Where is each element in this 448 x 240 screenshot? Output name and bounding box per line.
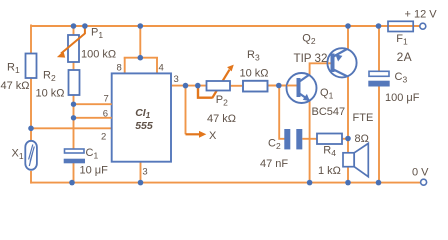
svg-text:R3: R3: [247, 49, 260, 63]
wire P2 to R3: [230, 85, 243, 87]
junction Q1 base C2: [276, 83, 282, 89]
wire 555 supply to rail: [139, 26, 141, 59]
junction rail P1 top: [71, 23, 77, 29]
junction rail 555 ground: [138, 180, 144, 186]
svg-text:47 kΩ: 47 kΩ: [1, 80, 30, 92]
potentiometer P1 wiper arrow: [57, 26, 85, 58]
svg-text:C3: C3: [395, 71, 408, 85]
wire 555 supply bracket pin 8 stub: [124, 58, 126, 74]
capacitor C2 right plate: [296, 129, 302, 149]
svg-text:555: 555: [135, 120, 153, 132]
potentiometer P2 wiper arrow: [212, 65, 234, 98]
wire Q1 base node down to C2: [279, 87, 284, 139]
capacitor C3 bottom plate: [368, 81, 389, 87]
junction rail P1 wiper: [82, 23, 88, 29]
junction rail Q2 emitter: [345, 23, 351, 29]
transistor Q1 internals: [287, 75, 310, 102]
junction 555 bracket: [138, 55, 144, 61]
svg-text:2: 2: [101, 132, 106, 143]
transistor Q2 internals: [328, 49, 347, 77]
wire C2 to R4: [302, 138, 318, 140]
svg-text:47 kΩ: 47 kΩ: [207, 113, 236, 125]
wire speaker to 0V rail: [347, 166, 349, 183]
crystal X1: [25, 141, 37, 170]
wire 555 supply bracket pin 4 stub: [156, 58, 158, 74]
speaker cone: [354, 143, 368, 176]
svg-text:7: 7: [104, 94, 109, 105]
wire R1 to X1: [30, 77, 32, 142]
wire R2 down to C1: [73, 94, 75, 149]
svg-text:X: X: [209, 130, 217, 142]
wire P2 wiper tail: [198, 86, 213, 98]
wire 555 supply bracket horizontal: [124, 57, 158, 59]
svg-text:47 nF: 47 nF: [260, 158, 288, 170]
svg-text:3: 3: [142, 167, 147, 178]
svg-text:BC547: BC547: [312, 106, 346, 118]
capacitor C1 bottom plate: [64, 159, 85, 164]
svg-text:P2: P2: [216, 94, 228, 108]
wire node X vertical drop: [185, 86, 187, 135]
wire C3 bottom to 0V rail: [378, 86, 380, 183]
transistor Q2 body: [327, 48, 356, 77]
wire X1 bottom to 0V rail: [30, 171, 32, 184]
svg-text:10 μF: 10 μF: [80, 165, 109, 177]
svg-text:R2: R2: [43, 70, 56, 84]
wire C1 bottom to 0V rail: [73, 163, 75, 183]
resistor R4: [317, 134, 342, 145]
svg-text:2A: 2A: [397, 50, 412, 64]
wire rail to P1 top: [73, 26, 75, 36]
wire pin 2 horizontal: [31, 127, 112, 129]
capacitor C3 top plate: [369, 71, 389, 76]
wire top +12V rail: [31, 25, 421, 27]
wire R4 to speaker node: [341, 138, 348, 140]
svg-text:P1: P1: [91, 27, 103, 41]
svg-text:FTE: FTE: [353, 112, 374, 124]
speaker body: [343, 153, 354, 167]
wire Q1 emitter down to 0V rail: [309, 100, 311, 183]
wire P1 to R2: [73, 61, 75, 71]
svg-text:100 kΩ: 100 kΩ: [81, 49, 116, 61]
resistor R2: [69, 70, 80, 95]
wire Q2 collector down to speaker: [347, 76, 349, 154]
IC U1 555 body: [112, 73, 171, 161]
junction R2 pin6: [71, 115, 76, 120]
node X output arrow: [186, 131, 207, 138]
wire pin 3 output horizontal: [171, 85, 207, 87]
junction rail C3 bottom: [376, 180, 382, 186]
svg-text:8: 8: [117, 63, 122, 74]
svg-text:TIP 32: TIP 32: [294, 52, 328, 65]
resistor R1: [26, 54, 37, 79]
svg-text:Q2: Q2: [302, 33, 316, 47]
junction R4 speaker: [345, 136, 351, 142]
junction pin3 node X: [183, 83, 189, 89]
wire pin 6 horizontal: [74, 117, 112, 119]
resistor R3: [243, 81, 268, 92]
wire Q1 collector to Q2 base: [310, 63, 331, 75]
wire pin 7 horizontal: [74, 103, 112, 105]
svg-text:10 kΩ: 10 kΩ: [36, 88, 65, 100]
junction rail C3: [376, 23, 382, 29]
svg-text:3: 3: [174, 74, 179, 85]
svg-text:R4: R4: [323, 145, 336, 159]
wire 555 ground pin to 0V rail: [140, 162, 142, 183]
junction pin3 P2 wiper: [195, 83, 201, 89]
svg-text:100 μF: 100 μF: [385, 92, 420, 104]
terminal 0V: [421, 179, 427, 185]
svg-text:+ 12 V: + 12 V: [405, 9, 438, 21]
junction rail speaker: [345, 180, 351, 186]
junction R2 pin7: [71, 102, 76, 107]
svg-text:X1: X1: [12, 148, 24, 162]
svg-text:Q1: Q1: [320, 87, 334, 101]
junction X1 pin2: [28, 126, 34, 132]
junction rail Q1 emitter: [307, 180, 313, 186]
potentiometer P2 body: [207, 81, 231, 91]
svg-text:1 kΩ: 1 kΩ: [318, 165, 341, 177]
wire C3 branch vertical: [378, 26, 380, 72]
capacitor C1 top plate: [65, 149, 85, 153]
svg-text:8Ω: 8Ω: [355, 133, 369, 145]
terminal +12V: [420, 23, 426, 29]
wire left vertical branch (rail to R1): [30, 25, 32, 55]
svg-text:4: 4: [159, 63, 164, 74]
junction rail C1: [69, 180, 75, 186]
fuse F1: [388, 21, 413, 31]
wire R3 to Q1 base: [266, 85, 297, 87]
potentiometer P1 body: [68, 35, 79, 62]
junction rail 555 supply: [138, 23, 144, 29]
capacitor C2 left plate: [284, 129, 290, 149]
wire Q2 emitter to rail: [347, 26, 349, 50]
wire bottom 0V rail: [31, 182, 421, 184]
svg-text:10 kΩ: 10 kΩ: [240, 68, 269, 80]
svg-text:R1: R1: [7, 62, 20, 76]
svg-text:0 V: 0 V: [412, 167, 429, 179]
transistor Q1 body: [287, 73, 317, 103]
svg-text:F1: F1: [396, 33, 408, 47]
svg-text:C1: C1: [86, 147, 99, 161]
